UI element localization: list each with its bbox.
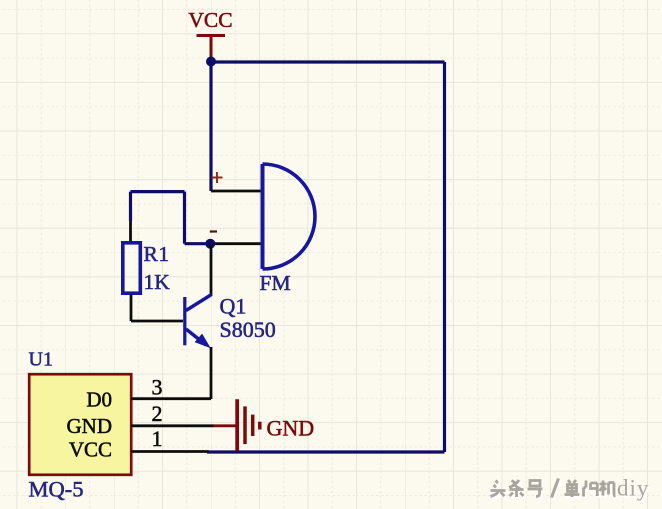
svg-text:S8050: S8050 xyxy=(220,317,276,342)
wire: base wire to Q1 xyxy=(131,320,183,323)
resistor R1 xyxy=(123,243,141,293)
wire: collector wire from minus node xyxy=(210,244,213,296)
svg-text:MQ-5: MQ-5 xyxy=(29,476,84,501)
svg-text:2: 2 xyxy=(152,401,163,426)
svg-text:D0: D0 xyxy=(86,387,112,411)
node: VCC junction xyxy=(206,57,216,67)
buzzer minus pin xyxy=(210,242,261,245)
node: buzzer minus junction xyxy=(205,239,215,249)
R1 pin 2 (bottom lead) xyxy=(130,295,133,322)
watermark: 头条号 / 单片机diy xyxy=(491,476,652,503)
U1 pin 1 (VCC) xyxy=(131,450,209,453)
U1 pin 3 (D0) xyxy=(131,397,211,400)
svg-text:FM: FM xyxy=(260,271,291,295)
power VCC xyxy=(197,36,226,59)
svg-text:3: 3 xyxy=(152,375,163,400)
wire: minus node left to step xyxy=(185,242,211,245)
wire: VCC node down to buzzer plus pin xyxy=(209,62,212,191)
wire: down to R1 top pin xyxy=(129,192,132,221)
svg-text:1: 1 xyxy=(152,426,163,451)
svg-text:U1: U1 xyxy=(29,348,53,370)
IC U1 (MQ-5 module) xyxy=(29,374,131,475)
buzzer plus pin xyxy=(211,190,261,193)
wire: right vertical of loop xyxy=(443,62,446,452)
transistor Q1 xyxy=(185,295,212,346)
buzzer FM xyxy=(263,164,316,269)
R1 pin 1 (top lead) xyxy=(129,221,132,242)
U1 pin 2 (GND) xyxy=(131,424,214,427)
wire: bottom horizontal of loop to U1 VCC pin xyxy=(207,450,445,453)
svg-text:GND: GND xyxy=(267,415,315,440)
wire: step vertical xyxy=(183,192,186,244)
wire: top horizontal from VCC node to right loop xyxy=(211,60,445,63)
polarity mark + xyxy=(212,172,223,183)
svg-text:GND: GND xyxy=(67,414,113,438)
svg-text:VCC: VCC xyxy=(188,8,232,32)
svg-text:Q1: Q1 xyxy=(220,294,247,319)
svg-text:VCC: VCC xyxy=(69,438,112,462)
polarity mark - xyxy=(210,230,217,232)
svg-text:R1: R1 xyxy=(144,242,170,266)
wire: step horizontal to R1 xyxy=(131,190,185,193)
ground GND xyxy=(213,399,260,451)
wire: emitter wire down to pin 3 xyxy=(210,347,213,399)
svg-text:1K: 1K xyxy=(144,270,171,294)
